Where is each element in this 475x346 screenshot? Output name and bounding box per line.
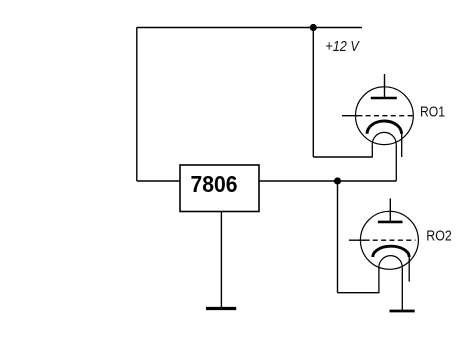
tube RO2 envelope bbox=[360, 211, 418, 269]
wire regulator output bbox=[259, 180, 396, 182]
tube RO1 grid dashed bbox=[366, 115, 414, 117]
wire to RO1 left heater pin bbox=[313, 156, 372, 158]
wire left drop from rail to regulator input bbox=[136, 28, 138, 182]
tube RO1 plate bar bbox=[371, 97, 397, 100]
wire top +12V rail bbox=[137, 27, 363, 29]
regulator U1 7806 box bbox=[180, 165, 259, 212]
svg-text:RO2: RO2 bbox=[426, 227, 452, 244]
tube RO1 grid lead bbox=[342, 115, 362, 117]
tube RO2 bbox=[349, 199, 419, 311]
tube RO2 plate bar bbox=[378, 221, 403, 224]
wire to RO2 left heater pin bbox=[338, 292, 379, 294]
ground under regulator bbox=[206, 307, 236, 310]
tube RO1 bbox=[342, 74, 414, 181]
tube RO2 grid lead bbox=[349, 239, 370, 241]
wire output drop to RO2 heater bbox=[337, 181, 339, 293]
svg-text:RO1: RO1 bbox=[420, 104, 445, 121]
tube RO2 grid dashed bbox=[373, 239, 416, 241]
tube RO1 plate lead bbox=[384, 74, 386, 98]
tube RO1 cathode lead bbox=[401, 133, 403, 158]
tube RO1 heater arch bbox=[372, 132, 396, 144]
tube RO1 envelope bbox=[356, 87, 414, 145]
tube RO1 heater right leg to output bbox=[395, 144, 397, 181]
wire regulator input bbox=[137, 180, 180, 182]
ground under RO2 bbox=[390, 310, 415, 313]
tube RO2 heater right leg to ground bbox=[401, 267, 403, 310]
svg-text:+12 V: +12 V bbox=[325, 38, 360, 55]
tube RO2 heater left leg bbox=[378, 267, 380, 293]
tube RO2 cathode arc bbox=[373, 246, 409, 257]
svg-text:7806: 7806 bbox=[191, 171, 238, 197]
node junction dot on +12V rail bbox=[310, 24, 317, 31]
tube RO2 cathode lead bbox=[408, 256, 410, 282]
tube RO1 cathode arc bbox=[367, 121, 401, 134]
tube RO1 heater left leg bbox=[371, 144, 373, 157]
tube RO2 plate lead bbox=[389, 199, 391, 223]
tube RO2 heater arch bbox=[379, 256, 402, 268]
wire +12V drop to RO1 heater bbox=[312, 28, 314, 158]
wire regulator ground pin bbox=[220, 212, 222, 309]
node junction dot on output bbox=[334, 177, 341, 184]
